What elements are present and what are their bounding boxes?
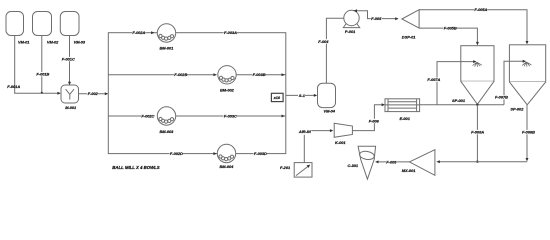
svg-text:K-001: K-001 xyxy=(335,140,346,145)
wire F-004 xyxy=(318,17,352,83)
svg-text:AIR-IN: AIR-IN xyxy=(298,129,311,134)
svg-text:SP-002: SP-002 xyxy=(510,106,524,111)
svg-text:MX-001: MX-001 xyxy=(402,168,416,173)
wire mix header xyxy=(436,160,527,163)
wire F-002B xyxy=(108,72,217,77)
svg-text:E-001: E-001 xyxy=(400,116,410,121)
svg-text:F-001C: F-001C xyxy=(62,57,75,62)
svg-text:BALL MILL X 4 BOWLS: BALL MILL X 4 BOWLS xyxy=(112,165,159,170)
svg-text:F-003D: F-003D xyxy=(254,151,267,156)
wire F-002A xyxy=(132,30,155,35)
svg-text:F-004: F-004 xyxy=(318,39,329,44)
wire F-009 xyxy=(375,159,409,164)
wire AIR-IN xyxy=(298,129,333,134)
svg-text:P-001: P-001 xyxy=(345,29,355,34)
wire F-005B xyxy=(419,26,479,46)
svg-text:F-005B: F-005B xyxy=(444,26,457,31)
svg-text:F-005: F-005 xyxy=(371,16,382,21)
air source F-201 xyxy=(280,163,312,178)
svg-text:F-002A: F-002A xyxy=(132,30,145,35)
svg-text:DSP-01: DSP-01 xyxy=(402,35,416,40)
wire F-005 xyxy=(354,9,399,21)
mixer MX-001 xyxy=(402,150,435,176)
svg-text:VM-01: VM-01 xyxy=(18,40,29,45)
tank VM-03 xyxy=(60,12,86,45)
wire hot air main xyxy=(420,104,504,106)
wire F-007B xyxy=(495,60,526,105)
wire F-008B xyxy=(522,105,536,162)
wire F-005A xyxy=(419,7,528,44)
separator SP-002 xyxy=(509,45,545,112)
svg-text:C-301: C-301 xyxy=(348,163,359,168)
svg-text:BM-003: BM-003 xyxy=(160,129,175,134)
svg-text:F-001B: F-001B xyxy=(36,72,49,77)
wire to air source xyxy=(303,135,305,163)
svg-text:F-007A: F-007A xyxy=(427,77,440,82)
ball mill BM-004 xyxy=(217,144,235,169)
svg-text:BM-001: BM-001 xyxy=(160,45,174,50)
wire F-007A xyxy=(427,60,476,105)
cyclone C-301 xyxy=(348,146,376,179)
svg-text:F-002B: F-002B xyxy=(174,72,187,77)
wire F-003A xyxy=(224,30,238,35)
wire F-001A xyxy=(7,36,61,95)
svg-text:F-008B: F-008B xyxy=(522,130,535,135)
wire F-001B xyxy=(36,36,50,94)
multiplier box x10 xyxy=(271,93,283,101)
wire F-002 xyxy=(79,91,109,96)
svg-text:VM-02: VM-02 xyxy=(47,40,59,45)
svg-text:S-1: S-1 xyxy=(299,93,305,98)
svg-text:VM-04: VM-04 xyxy=(324,108,336,113)
svg-text:F-005A: F-005A xyxy=(474,7,487,12)
svg-text:F-009: F-009 xyxy=(386,159,397,164)
svg-text:F-003B: F-003B xyxy=(253,72,266,77)
separator SP-001 xyxy=(452,46,494,105)
svg-text:F-002C: F-002C xyxy=(141,113,154,118)
wire F-001C xyxy=(61,36,75,86)
wire F-008A xyxy=(471,105,485,163)
svg-text:M-001: M-001 xyxy=(65,105,76,110)
svg-text:F-002: F-002 xyxy=(88,91,99,96)
svg-text:SP-001: SP-001 xyxy=(452,98,465,103)
svg-text:F-001A: F-001A xyxy=(7,84,20,89)
tank VM-02 xyxy=(33,12,60,45)
wire F-006 xyxy=(352,103,385,130)
tank VM-04 xyxy=(318,83,336,113)
svg-text:x10: x10 xyxy=(273,95,281,100)
ball mill BM-001 xyxy=(157,24,175,51)
svg-text:F-007B: F-007B xyxy=(495,95,508,100)
ball mill unit boundary box xyxy=(108,33,285,170)
mixer M-001 xyxy=(61,85,79,110)
svg-text:F-008A: F-008A xyxy=(471,130,484,135)
compressor K-001 xyxy=(334,123,352,145)
wire S-1 xyxy=(286,93,317,98)
heat exchanger E-001 xyxy=(385,99,420,121)
wire F-002C xyxy=(108,113,155,118)
svg-text:F-003A: F-003A xyxy=(224,30,237,35)
svg-text:F-201: F-201 xyxy=(280,165,290,170)
svg-text:BM-002: BM-002 xyxy=(220,87,235,92)
wire F-003C xyxy=(176,113,286,118)
tank VM-01 xyxy=(6,12,29,45)
pump P-001 xyxy=(343,10,359,34)
ball mill BM-002 xyxy=(218,66,236,93)
svg-text:VM-03: VM-03 xyxy=(74,40,86,45)
wire F-002D xyxy=(170,151,217,156)
wire F-003D xyxy=(254,151,268,156)
svg-text:F-003C: F-003C xyxy=(224,113,237,118)
wire F-003B xyxy=(236,72,286,77)
svg-text:F-002D: F-002D xyxy=(170,151,183,156)
svg-text:F-006: F-006 xyxy=(369,118,380,123)
svg-text:BM-004: BM-004 xyxy=(220,164,235,169)
splitter DSP-01 xyxy=(402,10,419,40)
ball mill BM-003 xyxy=(157,107,175,134)
